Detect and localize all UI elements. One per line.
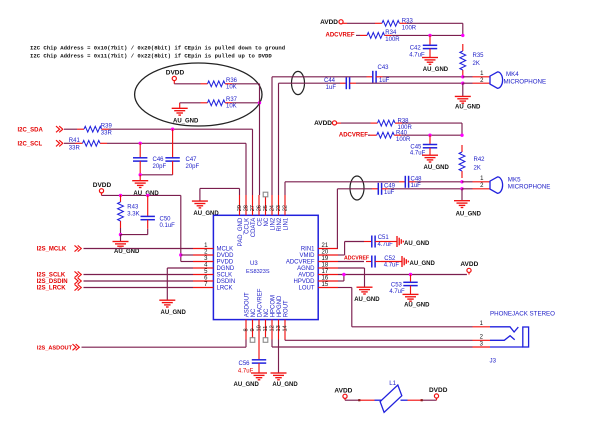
- svg-text:CCLK: CCLK: [245, 218, 251, 234]
- svg-text:I2S_SCLK: I2S_SCLK: [37, 273, 66, 279]
- svg-text:AU_GND: AU_GND: [114, 249, 140, 255]
- wire I2S_MCLK: [84, 248, 194, 250]
- wire AGND to gnd: [338, 268, 365, 287]
- net label ADCVREF (pin19): [344, 255, 369, 261]
- ground AU_GND (C53): [403, 294, 431, 308]
- svg-text:27: 27: [250, 205, 256, 211]
- svg-text:DSDIN: DSDIN: [217, 279, 236, 285]
- junction HPVDD/AVDD: [342, 273, 345, 276]
- junction CE net: [258, 101, 261, 104]
- ground AU_GND (R37): [172, 103, 199, 125]
- wire R38 to R42 top: [402, 123, 462, 135]
- svg-text:MCLK: MCLK: [217, 247, 234, 253]
- svg-text:LIN1: LIN1: [284, 217, 290, 230]
- junction R43 bottom: [119, 233, 122, 236]
- wire SDA to CDATA: [109, 129, 253, 195]
- wire C44 to mic pin2: [356, 82, 463, 84]
- svg-text:33R: 33R: [101, 131, 113, 137]
- pin 25 NC (top): [263, 192, 270, 226]
- svg-text:28: 28: [244, 205, 250, 211]
- svg-text:I2C_SCL: I2C_SCL: [18, 142, 43, 148]
- svg-text:RIN1: RIN1: [301, 247, 315, 253]
- wire AVDD to R33: [347, 22, 375, 24]
- connector J3 PHONEJACK STEREO: [473, 311, 556, 365]
- pin 8 ASDOUT (bottom): [244, 292, 251, 340]
- svg-text:13: 13: [276, 325, 282, 331]
- port I2C_SDA: [18, 126, 63, 133]
- pin 20 VMID: [300, 249, 339, 259]
- power AVDD (MK4): [320, 19, 347, 26]
- junction C53: [409, 273, 412, 276]
- svg-text:AGND: AGND: [297, 266, 315, 272]
- svg-text:MK5: MK5: [508, 177, 521, 184]
- svg-text:16: 16: [322, 275, 329, 281]
- svg-text:C53: C53: [391, 282, 403, 288]
- svg-text:10K: 10K: [226, 104, 237, 110]
- svg-text:NC: NC: [251, 308, 257, 317]
- ground AU_GND (C45): [422, 155, 450, 171]
- svg-text:15: 15: [322, 282, 329, 288]
- capacitor C49: [372, 183, 396, 196]
- svg-text:C50: C50: [160, 216, 172, 222]
- svg-text:AU_GND: AU_GND: [193, 211, 219, 217]
- svg-text:20pF: 20pF: [186, 164, 200, 170]
- junction R33/R35: [461, 34, 464, 37]
- svg-text:R39: R39: [101, 123, 113, 129]
- svg-text:HPVDD: HPVDD: [293, 279, 315, 285]
- ground AU_GND (C51 sideways): [397, 236, 430, 247]
- microphone MK5: [480, 176, 550, 193]
- wire C43 to mic pin1: [383, 76, 463, 78]
- pin 11 NC (bottom): [263, 308, 270, 342]
- svg-text:DVDD: DVDD: [217, 253, 235, 259]
- port I2S_LRCK: [37, 284, 82, 291]
- wire C49 to mic pin2: [388, 188, 462, 190]
- junction mic pin2 gnd (MK5): [460, 187, 463, 190]
- svg-text:ROUT: ROUT: [284, 300, 290, 317]
- pin 23 RIN2 (top): [276, 195, 283, 231]
- svg-text:21: 21: [322, 243, 329, 249]
- resistor R37: [201, 97, 238, 110]
- pin 7 LRCK: [193, 282, 233, 292]
- ground AU_GND (AGND): [354, 287, 380, 303]
- pin 1 MCLK: [193, 243, 233, 253]
- svg-text:R43: R43: [127, 204, 139, 210]
- svg-text:AU_GND: AU_GND: [456, 211, 482, 217]
- wire LIN2 to mic line1: [272, 77, 367, 195]
- svg-text:LOUT: LOUT: [298, 286, 314, 292]
- svg-text:24: 24: [270, 205, 276, 211]
- resistor R36: [201, 78, 238, 91]
- svg-text:PAD_GND: PAD_GND: [238, 217, 244, 246]
- ground AU_GND (C52 sideways): [402, 256, 436, 267]
- wire ROUT to jack pin2: [285, 339, 473, 342]
- wire LIN1 to mic line1: [285, 182, 399, 195]
- svg-text:SCLK: SCLK: [217, 273, 233, 279]
- svg-text:C56: C56: [239, 361, 251, 367]
- resistor R33: [375, 19, 417, 32]
- wire I2S_LRCK: [84, 287, 194, 289]
- svg-text:9: 9: [250, 328, 256, 331]
- wire C52 to gnd: [381, 261, 402, 263]
- svg-text:22: 22: [283, 205, 289, 211]
- ground AU_GND (MK4): [455, 83, 481, 110]
- svg-text:AU_GND: AU_GND: [424, 165, 450, 171]
- svg-text:100R: 100R: [396, 137, 411, 143]
- svg-text:AU_GND: AU_GND: [410, 261, 436, 267]
- wire RIN1 to mic line2: [337, 189, 372, 249]
- capacitor C50: [141, 194, 176, 235]
- pin dot L1 right: [421, 399, 423, 401]
- svg-text:100R: 100R: [402, 25, 417, 31]
- wire DVDD to pin2: [181, 254, 193, 256]
- wire C46 C47 bottoms: [140, 174, 172, 176]
- capacitor C51: [364, 235, 393, 248]
- resistor R39: [77, 123, 112, 136]
- ground AU_GND (R43): [113, 235, 141, 256]
- wire R33 to R35 top: [407, 23, 463, 35]
- svg-text:AVDD: AVDD: [334, 388, 352, 395]
- net label ADCVREF (MK5): [339, 133, 368, 139]
- power AVDD (L1): [334, 388, 352, 401]
- svg-text:20pF: 20pF: [153, 164, 167, 170]
- svg-text:18: 18: [322, 262, 329, 268]
- svg-text:VMID: VMID: [300, 253, 316, 259]
- wire AVDD to L1: [345, 399, 375, 401]
- pin 18 AGND: [297, 262, 338, 272]
- svg-text:AU_GND: AU_GND: [404, 302, 430, 308]
- svg-text:C47: C47: [186, 157, 198, 163]
- svg-text:R42: R42: [474, 157, 486, 163]
- wire gnd to R37: [180, 102, 201, 104]
- wire mic pin1: [463, 76, 490, 78]
- resistor R43: [118, 195, 140, 235]
- svg-text:17: 17: [322, 269, 329, 275]
- wire AVDD to R38: [341, 122, 371, 124]
- svg-text:PVDD: PVDD: [217, 260, 234, 266]
- wire R37 to CE net: [232, 102, 260, 104]
- wire R40 to junction: [401, 134, 462, 136]
- ground AU_GND (DGND pin4): [159, 268, 193, 316]
- wire ADCVREF to R34: [356, 34, 360, 36]
- svg-text:C42: C42: [410, 46, 422, 52]
- pin dot L1 left: [358, 399, 360, 401]
- svg-text:AU_GND: AU_GND: [455, 105, 481, 111]
- svg-text:AU_GND: AU_GND: [354, 297, 380, 303]
- wire mic pin1 (MK5): [462, 181, 490, 183]
- junction R35 bottom: [461, 75, 464, 78]
- svg-text:2K: 2K: [474, 166, 481, 172]
- svg-text:CDATA: CDATA: [251, 218, 257, 237]
- svg-text:DGND: DGND: [217, 266, 235, 272]
- svg-text:ADCVREF: ADCVREF: [344, 255, 369, 261]
- wire mic pin2: [463, 82, 490, 84]
- junction C46 top: [139, 142, 142, 145]
- svg-text:AU_GND: AU_GND: [173, 119, 199, 125]
- svg-text:2K: 2K: [473, 61, 480, 67]
- capacitor C43: [367, 65, 390, 84]
- wire DVDD rail: [102, 195, 194, 261]
- wire VMID to C51: [338, 242, 364, 256]
- port I2S_DSDIN: [37, 278, 82, 285]
- svg-text:I2C Chip Address = 0x11(7bit): I2C Chip Address = 0x11(7bit) / 0x22(8bi…: [30, 53, 272, 60]
- svg-text:AU_GND: AU_GND: [272, 382, 298, 388]
- pin 13 HPGND (bottom): [276, 295, 283, 340]
- svg-text:AVDD: AVDD: [460, 261, 478, 268]
- pin 22 LIN1 (top): [283, 195, 290, 230]
- pin 9 NC (bottom): [250, 308, 257, 342]
- svg-text:I2C_SDA: I2C_SDA: [18, 127, 44, 133]
- svg-text:33R: 33R: [69, 145, 81, 151]
- svg-text:ASDOUT: ASDOUT: [245, 292, 251, 317]
- svg-text:NC: NC: [264, 308, 270, 317]
- pin 2 DVDD: [193, 249, 234, 259]
- svg-text:10K: 10K: [226, 85, 237, 91]
- op IC U3 ES8323S body: [213, 215, 318, 319]
- ground AU_GND (HPGND): [271, 373, 299, 388]
- svg-text:3.3K: 3.3K: [127, 212, 139, 218]
- wire I2S_DSDIN: [84, 280, 194, 282]
- svg-text:23: 23: [276, 205, 282, 211]
- svg-text:PHONEJACK STEREO: PHONEJACK STEREO: [490, 311, 555, 318]
- port I2S_MCLK: [37, 245, 82, 252]
- svg-text:AVDD: AVDD: [298, 273, 315, 279]
- capacitor C53: [389, 275, 417, 296]
- power DVDD (L1): [429, 387, 448, 400]
- svg-text:29: 29: [237, 205, 243, 211]
- wire R36 to CE net: [232, 83, 260, 85]
- svg-text:1uF: 1uF: [384, 190, 395, 196]
- svg-text:8: 8: [244, 328, 250, 331]
- svg-text:R36: R36: [226, 78, 238, 84]
- resistor R38: [371, 118, 413, 131]
- microphone MK4: [480, 71, 546, 88]
- wire HPCOM to jack pin3: [272, 340, 473, 348]
- svg-text:MK4: MK4: [506, 71, 519, 78]
- capacitor C46: [133, 143, 167, 175]
- pin 21 RIN1: [301, 243, 338, 253]
- power AVDD (pin17): [460, 261, 478, 275]
- capacitor C47: [165, 129, 199, 175]
- capacitor C45: [410, 135, 437, 156]
- svg-text:I2S_DSDIN: I2S_DSDIN: [37, 279, 68, 285]
- pin 17 AVDD: [298, 269, 338, 279]
- junction R43 top: [119, 194, 122, 197]
- svg-text:AU_GND: AU_GND: [404, 241, 430, 247]
- svg-text:CE: CE: [258, 218, 264, 226]
- wire L1 to DVDD: [408, 399, 437, 401]
- port I2C_SCL: [18, 140, 63, 147]
- wire CE vertical to pin 26: [259, 84, 261, 195]
- svg-text:0.1uF: 0.1uF: [160, 223, 176, 229]
- resistor R42: [459, 145, 485, 178]
- wire AVDD line pin17: [338, 274, 467, 276]
- svg-text:AVDD: AVDD: [320, 19, 338, 26]
- pin 19 ADCVREF: [286, 256, 338, 266]
- svg-text:I2C Chip Address = 0x10(7bit): I2C Chip Address = 0x10(7bit) / 0x20(8bi…: [30, 45, 285, 52]
- svg-text:HPCOM: HPCOM: [271, 295, 277, 317]
- svg-text:HPGND: HPGND: [277, 295, 283, 317]
- pin 6 DSDIN: [193, 275, 235, 285]
- svg-text:19: 19: [322, 256, 329, 262]
- svg-text:AU_GND: AU_GND: [161, 310, 187, 316]
- wire C48 to mic pin1: [415, 181, 462, 183]
- junction C47 top: [171, 128, 174, 131]
- svg-text:I2S_LRCK: I2S_LRCK: [37, 286, 67, 292]
- svg-text:11: 11: [263, 326, 269, 332]
- pin 4 DGND: [193, 262, 235, 272]
- wire mic pin2 (MK5): [462, 188, 490, 190]
- svg-text:20: 20: [322, 249, 329, 255]
- pin 5 SCLK: [193, 269, 232, 279]
- net label ADCVREF (MK4): [326, 33, 355, 39]
- svg-text:100R: 100R: [385, 37, 400, 43]
- junction DVDD pin2: [179, 253, 182, 256]
- svg-text:MICROPHONE: MICROPHONE: [508, 184, 551, 191]
- junction R42 bottom: [460, 180, 463, 183]
- ground AU_GND (C42): [422, 58, 449, 73]
- power DVDD (pull-up): [166, 70, 185, 84]
- svg-text:I2S_ASDOUT: I2S_ASDOUT: [37, 345, 73, 351]
- svg-text:LIN2: LIN2: [271, 217, 277, 230]
- wire R34 to junction: [392, 34, 463, 36]
- pin 10 DACVREF (bottom): [257, 288, 264, 339]
- svg-text:MICROPHONE: MICROPHONE: [504, 78, 547, 85]
- svg-text:14: 14: [283, 325, 289, 331]
- pin 15 LOUT: [298, 282, 338, 292]
- svg-text:L1: L1: [389, 380, 396, 387]
- pin 16 HPVDD: [293, 275, 338, 285]
- power AVDD (MK5): [314, 120, 341, 127]
- ground AU_GND (PAD_GND): [192, 188, 220, 217]
- svg-text:26: 26: [257, 205, 263, 211]
- svg-text:R41: R41: [69, 138, 81, 144]
- svg-text:R37: R37: [226, 97, 238, 103]
- pin 12 HPCOM (bottom): [270, 295, 277, 340]
- wire RIN2 to mic line2: [279, 83, 341, 195]
- ground AU_GND (C56): [234, 373, 268, 388]
- port I2S_ASDOUT: [37, 344, 79, 351]
- svg-text:C51: C51: [378, 235, 390, 241]
- svg-text:C46: C46: [153, 157, 165, 163]
- resistor R34: [360, 30, 400, 43]
- wire HPGND to gnd: [278, 340, 280, 373]
- svg-text:I2S_MCLK: I2S_MCLK: [37, 247, 67, 253]
- svg-text:U3: U3: [250, 261, 258, 267]
- wire ADCVREF to R40: [368, 134, 370, 136]
- junction C46 bottom: [139, 173, 142, 176]
- resistor R40: [370, 130, 411, 143]
- junction mic pin2 gnd: [461, 82, 464, 85]
- ground AU_GND (MK5): [454, 189, 482, 218]
- highlight ellipse around R36 R37: [135, 63, 262, 126]
- pin 27 CDATA (top): [250, 195, 257, 237]
- svg-text:1uF: 1uF: [326, 85, 337, 91]
- pin 3 PVDD: [193, 256, 234, 266]
- note I2C address text: [30, 45, 285, 60]
- pin 28 CCLK (top): [244, 195, 251, 234]
- svg-text:DVDD: DVDD: [166, 70, 185, 77]
- svg-text:1uF: 1uF: [411, 183, 422, 189]
- svg-text:LRCK: LRCK: [217, 286, 233, 292]
- svg-text:NC: NC: [264, 217, 270, 226]
- svg-text:ADCVREF: ADCVREF: [339, 133, 368, 139]
- wire I2S_SCLK: [84, 274, 194, 276]
- svg-text:4.7uF: 4.7uF: [378, 242, 394, 248]
- pin 26 CE (top): [257, 195, 264, 226]
- svg-text:DVDD: DVDD: [93, 182, 112, 189]
- svg-text:AU_GND: AU_GND: [234, 382, 260, 388]
- resistor R41: [69, 138, 107, 151]
- capacitor C48: [399, 176, 422, 189]
- wire HPVDD to AVDD line: [338, 275, 344, 282]
- wire I2C_SDA to R39: [64, 128, 77, 130]
- inductor L1: [375, 380, 408, 412]
- svg-text:C43: C43: [378, 65, 390, 71]
- svg-text:10: 10: [257, 325, 263, 331]
- svg-text:ADCVREF: ADCVREF: [326, 33, 355, 39]
- svg-text:RIN2: RIN2: [277, 217, 283, 231]
- junction C45: [428, 134, 431, 137]
- wire I2S_ASDOUT: [82, 340, 247, 348]
- svg-text:DVDD: DVDD: [429, 387, 448, 394]
- wire SCL to CCLK: [107, 143, 246, 195]
- power DVDD (rail): [93, 182, 112, 195]
- svg-text:C44: C44: [324, 78, 336, 84]
- pin 24 LIN2 (top): [270, 195, 277, 230]
- pin 14 ROUT (bottom): [283, 300, 290, 340]
- wire C51 to gnd: [381, 241, 397, 243]
- svg-text:25: 25: [263, 205, 269, 211]
- junction R38/R42: [460, 134, 463, 137]
- highlight ellipse on MK5 input wires: [350, 176, 364, 200]
- wire R43 to C50 bottom: [121, 234, 148, 236]
- pin 29 PAD_GND (top): [237, 195, 244, 246]
- junction C42: [428, 34, 431, 37]
- svg-text:R35: R35: [473, 53, 485, 59]
- ground AU_GND (C46 C47): [132, 175, 159, 197]
- capacitor C44: [324, 77, 356, 91]
- wire DVDD to R36: [174, 83, 200, 85]
- svg-text:12: 12: [270, 325, 276, 331]
- svg-text:DACVREF: DACVREF: [258, 288, 264, 317]
- wire I2C_SCL to R41: [64, 142, 76, 144]
- capacitor C52: [366, 256, 399, 269]
- port I2S_SCLK: [37, 271, 82, 278]
- capacitor C42: [409, 35, 437, 58]
- svg-text:4.7uF: 4.7uF: [384, 263, 400, 269]
- svg-text:J3: J3: [490, 357, 497, 364]
- capacitor C56: [238, 340, 266, 375]
- svg-text:AU_GND: AU_GND: [423, 67, 449, 73]
- svg-text:AVDD: AVDD: [314, 120, 332, 127]
- wire ADCVREF pin19 to C52: [338, 261, 364, 263]
- wire PAD_GND: [200, 188, 240, 195]
- resistor R35: [460, 44, 484, 77]
- svg-text:ADCVREF: ADCVREF: [286, 260, 315, 266]
- wire LOUT to jack pin1: [338, 288, 473, 327]
- highlight ellipse on MK4 input wires: [292, 71, 305, 94]
- svg-text:ES8323S: ES8323S: [246, 269, 270, 275]
